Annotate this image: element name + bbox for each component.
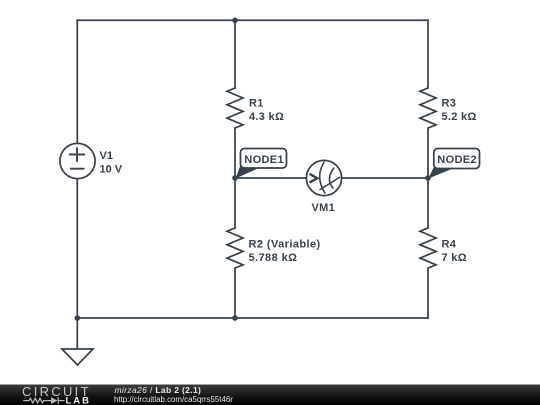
ground <box>62 349 93 365</box>
junction bottom left <box>75 315 81 321</box>
wire right branch upper <box>427 20 429 88</box>
wire right branch mid <box>427 128 429 228</box>
junction node B <box>425 175 431 181</box>
wire middle branch lower <box>234 268 236 318</box>
svg-text:mirza26 / Lab 2 (2.1): mirza26 / Lab 2 (2.1) <box>115 385 202 395</box>
resistor R4 <box>420 228 467 268</box>
wire left lower <box>76 179 78 318</box>
resistor R3 <box>420 88 477 128</box>
resistor R2 <box>227 228 321 268</box>
junction node A <box>232 175 238 181</box>
svg-text:7 kΩ: 7 kΩ <box>442 252 467 264</box>
svg-text:R2 (Variable): R2 (Variable) <box>249 238 321 250</box>
junction dot top <box>232 18 238 24</box>
node NODE1 <box>236 149 287 179</box>
wire middle branch mid <box>234 128 236 228</box>
svg-text:http://circuitlab.com/ca5qrrs5: http://circuitlab.com/ca5qrrs55t46r <box>114 395 233 404</box>
wire left upper <box>76 20 78 143</box>
wire middle branch upper <box>234 20 236 88</box>
svg-text:VM1: VM1 <box>312 202 336 214</box>
svg-text:4.3 kΩ: 4.3 kΩ <box>249 111 284 123</box>
svg-text:V1: V1 <box>100 150 113 162</box>
svg-text:R1: R1 <box>249 98 264 110</box>
wire VM1 to node2 <box>342 177 428 179</box>
node NODE2 <box>429 149 480 179</box>
voltmeter VM1 <box>306 160 341 214</box>
footer bar <box>0 385 540 405</box>
svg-text:R3: R3 <box>442 98 457 110</box>
wire node1 to VM1 <box>235 177 306 179</box>
svg-text:R4: R4 <box>442 238 457 250</box>
wire ground lead <box>76 318 78 349</box>
wire right branch lower <box>427 268 429 318</box>
svg-text:NODE1: NODE1 <box>244 154 284 166</box>
logo CircuitLab <box>22 384 91 405</box>
svg-text:5.2 kΩ: 5.2 kΩ <box>442 111 477 123</box>
junction bottom mid <box>232 315 238 321</box>
voltage source V1 <box>60 143 123 178</box>
svg-text:NODE2: NODE2 <box>437 154 477 166</box>
wire bottom <box>77 317 428 319</box>
svg-text:LAB: LAB <box>66 396 92 405</box>
svg-text:10 V: 10 V <box>100 164 123 176</box>
wire top <box>77 19 428 21</box>
svg-text:5.788 kΩ: 5.788 kΩ <box>249 252 298 264</box>
resistor R1 <box>227 88 284 128</box>
